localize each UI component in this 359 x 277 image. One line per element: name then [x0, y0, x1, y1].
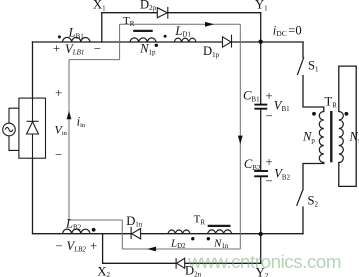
svg-text:−: −	[55, 148, 62, 162]
arrow down (right loop)	[238, 136, 243, 145]
svg-text:−: −	[265, 174, 272, 188]
current loop thin path	[69, 24, 240, 249]
coupled core bar bottom (N1n)	[208, 225, 231, 227]
winding N1p	[130, 38, 156, 42]
coupled core bar top (N1p)	[133, 30, 153, 32]
wire main bottom rail	[33, 233, 304, 235]
diode D1n	[131, 227, 141, 239]
polarity dot LD2	[191, 237, 194, 240]
transformer secondary winding Ns	[339, 112, 344, 163]
polarity dot Np	[312, 112, 316, 116]
svg-text:+: +	[53, 42, 60, 56]
transformer core TR	[330, 111, 332, 162]
inductor LD2	[168, 230, 190, 234]
polarity dot Ns	[345, 112, 349, 116]
switch S2 blade	[297, 190, 303, 206]
wire secondary top lead	[339, 66, 356, 186]
diode D2p	[157, 7, 168, 19]
wire main top rail	[33, 41, 304, 43]
wire S1 top lead	[302, 42, 304, 57]
svg-text:+: +	[55, 86, 62, 100]
wire top D2p rail	[102, 12, 261, 14]
polarity dot LB2	[92, 228, 96, 232]
polarity dot LB1	[58, 35, 61, 38]
junction node Y2' dot	[259, 232, 263, 236]
wire left vertical upper	[32, 42, 34, 98]
polarity dot LD1	[164, 35, 167, 38]
diode D2n	[176, 258, 185, 269]
capacitor CB1	[254, 105, 267, 109]
wire capacitor chain lower	[260, 177, 262, 234]
diode D1p	[223, 35, 232, 48]
polarity dot N1n	[207, 237, 210, 240]
arrow right (top loop)	[205, 22, 214, 27]
inductor LD1	[174, 38, 196, 42]
wire node Y2 vertical	[260, 234, 262, 264]
wire S1 bottom lead	[303, 76, 324, 112]
wire node X1 vertical	[101, 13, 103, 42]
winding N1n	[208, 230, 232, 234]
svg-text:−: −	[265, 109, 272, 123]
svg-text:−: −	[55, 239, 62, 253]
arrow up i_in	[67, 111, 72, 120]
wire left vertical lower	[32, 158, 34, 234]
svg-text:+: +	[265, 155, 272, 169]
transformer primary winding Np	[319, 112, 324, 163]
arrow left (bottom loop)	[147, 247, 156, 252]
capacitor CB2	[254, 171, 268, 176]
rectifier box	[19, 98, 46, 158]
wire D2n rail	[103, 262, 261, 264]
svg-text:www.cntronics.com: www.cntronics.com	[187, 251, 341, 272]
AC source	[3, 108, 19, 150]
svg-text:−: −	[94, 42, 101, 56]
wire node Y1 vertical	[260, 13, 262, 42]
wire capacitor chain middle	[260, 109, 262, 170]
polarity dot N1p	[155, 44, 158, 47]
wire primary bottom lead	[303, 163, 324, 190]
svg-text:+: +	[90, 239, 97, 253]
rectifier diode	[27, 98, 39, 158]
wire node X2 vertical	[102, 234, 104, 264]
svg-text:Ns: Ns	[349, 130, 359, 145]
switch S1 blade	[297, 57, 304, 75]
inductor LB2	[63, 229, 91, 234]
wire capacitor chain upper	[260, 42, 262, 104]
svg-text:+: +	[265, 89, 272, 103]
inductor LB1	[63, 37, 91, 42]
junction node Y1' dot	[259, 40, 263, 44]
wire S2 bottom lead	[302, 207, 304, 234]
